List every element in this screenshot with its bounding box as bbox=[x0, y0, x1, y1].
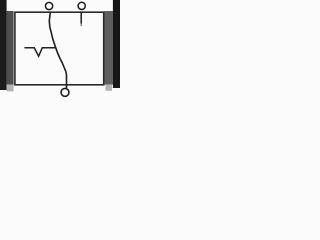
terminal top-left circle bbox=[46, 2, 53, 9]
left shadow light tail bbox=[7, 85, 14, 92]
fading tip of right stub bbox=[80, 24, 82, 27]
switch blade wire from top-left terminal to bottom terminal bbox=[49, 13, 66, 88]
enclosure box bbox=[15, 12, 104, 85]
left page-edge black bar bbox=[0, 0, 7, 90]
wire stub below top-right terminal bbox=[80, 13, 82, 24]
right shadow gray bar bbox=[104, 11, 113, 85]
right shadow light tail bbox=[105, 85, 112, 91]
terminal bottom circle bbox=[61, 88, 69, 96]
background bbox=[0, 0, 120, 100]
left shadow gray bar bbox=[7, 11, 14, 85]
terminal top-right circle bbox=[78, 2, 85, 9]
right page-edge black bar bbox=[113, 0, 120, 88]
contact line with V notch bbox=[24, 48, 55, 56]
